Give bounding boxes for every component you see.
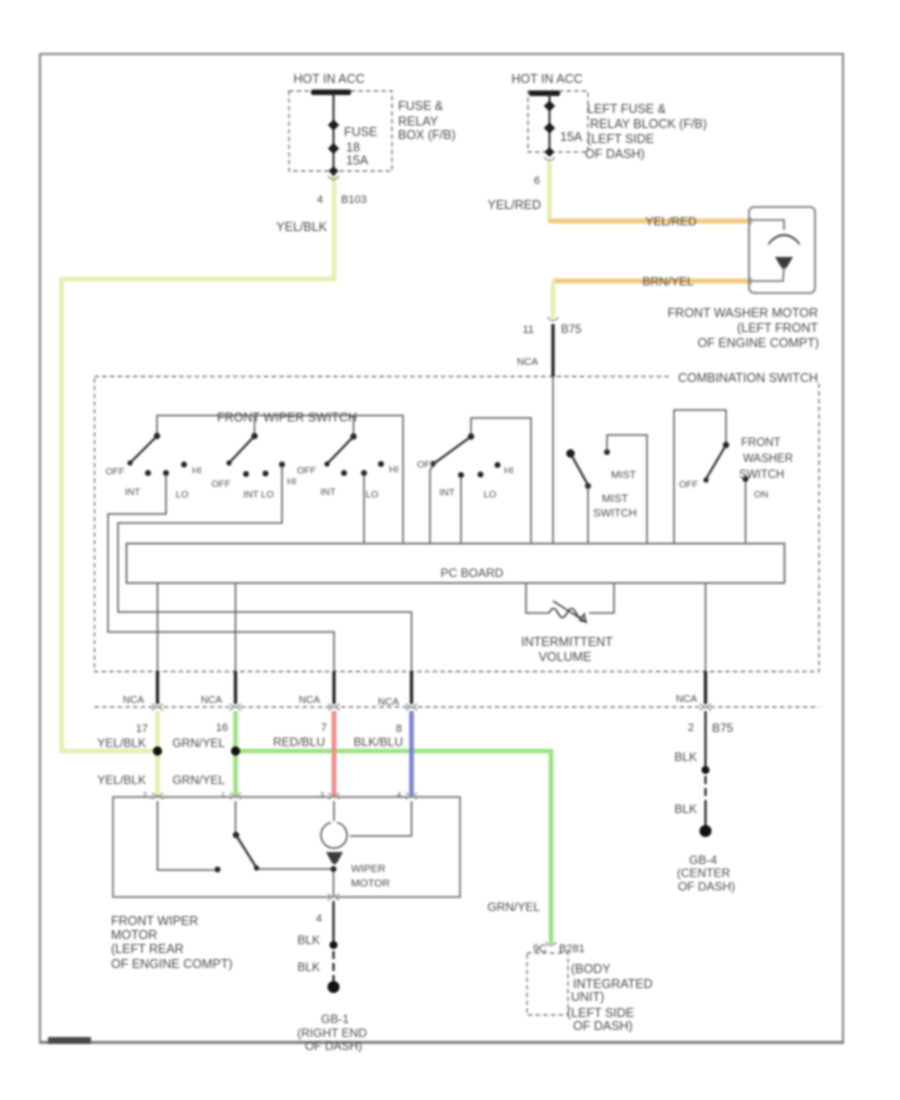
svg-text:4: 4 bbox=[317, 194, 323, 206]
svg-text:RELAY: RELAY bbox=[398, 115, 439, 129]
svg-text:HOT IN ACC: HOT IN ACC bbox=[293, 72, 364, 86]
pin 8 bbox=[396, 723, 402, 735]
svg-text:LO: LO bbox=[484, 490, 497, 501]
label HOT IN ACC (right) bbox=[511, 72, 582, 86]
svg-text:OFF: OFF bbox=[679, 480, 698, 491]
svg-text:YEL/RED: YEL/RED bbox=[488, 198, 542, 212]
svg-text:OFF: OFF bbox=[417, 460, 436, 471]
front wiper motor box bbox=[113, 797, 460, 897]
svg-text:INT: INT bbox=[125, 487, 141, 498]
svg-text:VOLUME: VOLUME bbox=[539, 650, 592, 664]
svg-text:8: 8 bbox=[396, 723, 402, 735]
svg-text:OF DASH): OF DASH) bbox=[585, 147, 645, 161]
svg-text:NCA: NCA bbox=[201, 695, 222, 706]
svg-text:COMBINATION SWITCH: COMBINATION SWITCH bbox=[678, 371, 818, 385]
wire exit2 gray inside box bbox=[235, 583, 237, 672]
washer motor connectors at box edge bbox=[748, 216, 752, 287]
svg-text:FRONT WIPER SWITCH: FRONT WIPER SWITCH bbox=[217, 411, 357, 425]
svg-text:NCA: NCA bbox=[299, 695, 320, 706]
svg-text:HI: HI bbox=[192, 466, 202, 477]
svg-text:11: 11 bbox=[523, 324, 534, 336]
label LEFT FUSE & RELAY BLOCK bbox=[585, 102, 707, 161]
svg-text:LO: LO bbox=[366, 490, 379, 501]
intermittent volume bbox=[521, 583, 614, 664]
wire exit5 black harness bbox=[704, 671, 707, 704]
svg-text:OFF: OFF bbox=[212, 479, 231, 490]
svg-text:GRN/YEL: GRN/YEL bbox=[172, 736, 225, 750]
pin 2 B75 bbox=[688, 721, 734, 735]
wire YEL/RED vertical bbox=[547, 162, 552, 221]
label NCA exit4 bbox=[378, 697, 399, 708]
svg-text:HI: HI bbox=[389, 465, 399, 476]
wire GRN/YEL horizontal to body integrated unit bbox=[236, 751, 552, 944]
svg-text:LEFT FUSE &: LEFT FUSE & bbox=[587, 102, 667, 116]
svg-text:BOX (F/B): BOX (F/B) bbox=[398, 128, 456, 142]
svg-text:OF DASH): OF DASH) bbox=[305, 1039, 362, 1053]
wire exit1 YEL/BLK colored bbox=[155, 711, 160, 796]
wiper switch wafer 2 bbox=[212, 416, 297, 501]
connector at wiper motor box bottom bbox=[316, 894, 339, 926]
svg-text:FRONT: FRONT bbox=[741, 437, 781, 449]
label YEL/RED (left of wire) bbox=[488, 198, 542, 212]
watermark blob bottom-left bbox=[48, 1037, 91, 1044]
front washer switch bbox=[674, 410, 768, 544]
wire YEL/BLK long run from fuse box to wiper circuit bbox=[62, 176, 335, 751]
wiper motor internal wires bbox=[158, 801, 412, 897]
svg-text:6: 6 bbox=[534, 175, 540, 187]
wire exit4 BLK/BLU colored bbox=[409, 711, 414, 796]
wire fuse 18 internal bbox=[333, 93, 335, 176]
svg-text:(RIGHT END: (RIGHT END bbox=[297, 1026, 367, 1040]
svg-text:SWITCH: SWITCH bbox=[739, 469, 784, 481]
label COMBINATION SWITCH bbox=[672, 371, 820, 385]
connector pin 4 at fuse box bottom bbox=[317, 166, 367, 206]
label FRONT WASHER SWITCH bbox=[739, 437, 793, 481]
svg-text:(CENTER: (CENTER bbox=[677, 866, 731, 880]
svg-text:INT: INT bbox=[320, 487, 336, 498]
svg-text:HI: HI bbox=[504, 466, 514, 477]
svg-text:4: 4 bbox=[397, 792, 401, 799]
wire wafer2 HI to BLK/BLU exit bbox=[118, 466, 412, 672]
splice dot bottom bbox=[330, 941, 338, 949]
svg-text:HI: HI bbox=[287, 477, 297, 488]
wire wafer4 INT to PC board bbox=[460, 477, 462, 544]
pin 17 bbox=[136, 723, 148, 735]
label NCA exit2 bbox=[201, 695, 222, 706]
svg-text:B75: B75 bbox=[561, 324, 581, 336]
svg-text:RED/BLU: RED/BLU bbox=[273, 735, 325, 749]
svg-text:YEL/BLK: YEL/BLK bbox=[97, 736, 146, 750]
fuse 15A bbox=[544, 100, 583, 144]
svg-text:FRONT WASHER MOTOR: FRONT WASHER MOTOR bbox=[668, 306, 818, 320]
inline connector marks bottom bbox=[0, 0, 1, 1]
svg-text:RELAY BLOCK (F/B): RELAY BLOCK (F/B) bbox=[590, 117, 707, 131]
ground GB-4 bbox=[677, 825, 735, 894]
svg-text:GB-4: GB-4 bbox=[689, 853, 717, 867]
svg-text:BLK/BLU: BLK/BLU bbox=[354, 735, 403, 749]
inline connector marks right bbox=[0, 0, 1, 1]
svg-text:(BODY: (BODY bbox=[571, 962, 611, 976]
wire wafer3 LO to PC board bbox=[363, 475, 365, 544]
svg-text:BLK: BLK bbox=[674, 802, 697, 816]
fuse and relay box (F/B) dashed box bbox=[289, 91, 392, 171]
wire BLK to ground GB-1 bbox=[332, 901, 334, 983]
svg-text:(LEFT REAR: (LEFT REAR bbox=[111, 942, 184, 956]
svg-text:BLK: BLK bbox=[674, 750, 697, 764]
connector row dashed line B75 bbox=[95, 706, 820, 708]
label BLK (right, lower) bbox=[674, 802, 697, 816]
wire black to combination switch bbox=[551, 324, 554, 377]
svg-text:BLK: BLK bbox=[297, 960, 320, 974]
label GRN/YEL row1 bbox=[172, 736, 225, 750]
wire exit1 black harness bbox=[156, 671, 159, 704]
svg-text:18: 18 bbox=[346, 141, 360, 155]
bus bar (left fuse box) bbox=[311, 90, 351, 96]
svg-text:2: 2 bbox=[143, 792, 147, 799]
svg-text:OFF: OFF bbox=[106, 467, 125, 478]
connector 9C B281 bbox=[533, 942, 585, 955]
svg-text:NCA: NCA bbox=[676, 694, 697, 705]
connector symbol exit3 bbox=[329, 704, 340, 711]
svg-text:YEL/BLK: YEL/BLK bbox=[97, 773, 146, 787]
washer motor box bbox=[749, 207, 815, 293]
label FRONT WASHER MOTOR bbox=[668, 306, 819, 350]
wire exit2 GRN/YEL colored bbox=[233, 711, 238, 796]
label GRN/YEL near body integrated unit bbox=[487, 900, 540, 914]
svg-text:FUSE &: FUSE & bbox=[398, 99, 444, 113]
svg-text:INTEGRATED: INTEGRATED bbox=[573, 977, 653, 991]
svg-text:UNIT): UNIT) bbox=[571, 990, 604, 1004]
label GRN/YEL row2 bbox=[172, 773, 225, 787]
wire wafer4 OFF to PC board bbox=[430, 466, 433, 544]
wiper switch wafer 3 bbox=[297, 416, 399, 501]
wire washer switch feed: yellow stub bbox=[551, 281, 556, 318]
wire wafer1 LO to RED/BLU exit bbox=[108, 475, 334, 672]
label YEL/BLK row1 bbox=[97, 736, 146, 750]
svg-text:MIST: MIST bbox=[602, 493, 629, 505]
mist switch bbox=[566, 435, 647, 544]
label FRONT WIPER MOTOR bbox=[111, 914, 233, 971]
svg-text:17: 17 bbox=[136, 723, 148, 735]
svg-text:INTERMITTENT: INTERMITTENT bbox=[521, 635, 613, 649]
junction dot exit2 bbox=[231, 746, 240, 755]
svg-text:1: 1 bbox=[221, 792, 225, 799]
wire exit2 black harness bbox=[234, 671, 237, 704]
svg-text:OFF: OFF bbox=[297, 466, 316, 477]
label FUSE & RELAY BOX (F/B) bbox=[398, 99, 456, 142]
svg-text:NCA: NCA bbox=[517, 357, 538, 368]
pin 7 bbox=[321, 722, 327, 734]
label BODY INTEGRATED UNIT bbox=[567, 962, 653, 1033]
svg-text:GB-1: GB-1 bbox=[321, 1012, 349, 1026]
wiper motor symbol bbox=[321, 823, 390, 890]
label NCA exit5 bbox=[676, 694, 697, 705]
label NCA (washer wire) bbox=[517, 357, 538, 368]
wire BRN/YEL horizontal from washer motor bbox=[553, 275, 750, 289]
svg-text:BRN/YEL: BRN/YEL bbox=[642, 275, 694, 289]
svg-text:WIPER: WIPER bbox=[351, 863, 386, 875]
svg-text:(LEFT SIDE: (LEFT SIDE bbox=[587, 132, 654, 146]
svg-text:(LEFT FRONT: (LEFT FRONT bbox=[737, 321, 818, 335]
fuse F18 15A bbox=[328, 119, 378, 167]
svg-text:15A: 15A bbox=[560, 130, 583, 144]
svg-text:YEL/BLK: YEL/BLK bbox=[276, 220, 327, 234]
svg-text:B103: B103 bbox=[341, 194, 367, 206]
bus bar (right fuse box) bbox=[529, 91, 560, 97]
svg-text:YEL/RED: YEL/RED bbox=[645, 215, 697, 229]
label NCA exit1 bbox=[123, 695, 144, 706]
wiper switch bus bbox=[157, 416, 403, 545]
combination switch dashed box bbox=[95, 377, 820, 672]
wire exit3 RED/BLU colored bbox=[332, 711, 337, 796]
wire fuse 15A internal bbox=[549, 93, 551, 156]
wiper switch wafer 1 bbox=[106, 433, 202, 501]
ground GB-1 bbox=[297, 981, 367, 1053]
svg-text:16: 16 bbox=[216, 722, 228, 734]
svg-text:3: 3 bbox=[320, 792, 324, 799]
svg-text:WASHER: WASHER bbox=[743, 453, 793, 465]
svg-text:PC BOARD: PC BOARD bbox=[441, 566, 504, 580]
svg-text:15A: 15A bbox=[346, 154, 369, 168]
svg-text:(LEFT SIDE: (LEFT SIDE bbox=[567, 1006, 634, 1020]
svg-text:HOT IN ACC: HOT IN ACC bbox=[511, 72, 582, 86]
svg-text:OF DASH): OF DASH) bbox=[573, 1019, 633, 1033]
svg-text:7: 7 bbox=[321, 722, 327, 734]
connector 11 B75 bbox=[523, 317, 582, 336]
wire BLK to ground GB-4 bbox=[704, 711, 706, 827]
wire exit1 gray inside box bbox=[157, 583, 159, 672]
label YEL/BLK row2 bbox=[97, 773, 146, 787]
wiper motor park switch bbox=[215, 832, 260, 873]
svg-text:NCA: NCA bbox=[123, 695, 144, 706]
wire washer feed inside combination switch bbox=[552, 377, 554, 544]
label BLK (bottom, upper) bbox=[297, 933, 320, 947]
svg-text:GRN/YEL: GRN/YEL bbox=[172, 773, 225, 787]
washer motor symbol bbox=[750, 220, 800, 281]
label YEL/BLK (top left wire) bbox=[276, 220, 327, 234]
svg-text:B75: B75 bbox=[712, 721, 734, 735]
svg-text:LO: LO bbox=[176, 490, 189, 501]
label HOT IN ACC (left) bbox=[293, 72, 364, 86]
junction dot exit1 bbox=[153, 746, 162, 755]
svg-text:OF ENGINE COMPT): OF ENGINE COMPT) bbox=[111, 957, 233, 971]
svg-text:MOTOR: MOTOR bbox=[111, 928, 157, 942]
svg-text:OF ENGINE COMPT): OF ENGINE COMPT) bbox=[697, 336, 819, 350]
connector symbol exit2 bbox=[230, 704, 241, 711]
PC board bbox=[127, 544, 785, 584]
svg-text:FRONT WIPER: FRONT WIPER bbox=[111, 914, 198, 928]
label FRONT WIPER SWITCH bbox=[217, 411, 357, 425]
svg-text:MOTOR: MOTOR bbox=[351, 878, 390, 890]
connector symbol exit4 bbox=[406, 704, 417, 711]
splice dot right bbox=[702, 766, 710, 774]
pin 16 bbox=[216, 722, 228, 734]
svg-text:4: 4 bbox=[316, 913, 322, 925]
wire exit4 black harness bbox=[410, 671, 413, 704]
wire exit5 gray inside box (to GB-4) bbox=[705, 583, 707, 672]
svg-text:GRN/YEL: GRN/YEL bbox=[487, 900, 540, 914]
svg-text:MIST: MIST bbox=[611, 469, 637, 481]
wire exit3 black harness bbox=[332, 671, 335, 704]
connector symbol exit1 bbox=[152, 704, 163, 711]
label BLK/BLU bbox=[354, 735, 403, 749]
svg-text:2: 2 bbox=[688, 722, 694, 734]
svg-text:INT LO: INT LO bbox=[243, 490, 273, 501]
body integrated unit dashed box bbox=[527, 953, 568, 1015]
svg-text:INT: INT bbox=[439, 488, 455, 499]
svg-text:ON: ON bbox=[754, 490, 768, 501]
connector pin 6 at right fuse box bottom bbox=[534, 147, 555, 187]
svg-text:BLK: BLK bbox=[297, 933, 320, 947]
svg-text:OF DASH): OF DASH) bbox=[678, 880, 735, 894]
connector symbols at wiper motor box top bbox=[143, 792, 417, 800]
connector symbol exit5 bbox=[700, 704, 711, 711]
wiper switch wafer 4 bbox=[417, 418, 531, 544]
left fuse block (HOT IN ACC right) dashed box bbox=[528, 91, 588, 152]
svg-text:SWITCH: SWITCH bbox=[593, 508, 636, 520]
wire YEL/RED horizontal to washer motor bbox=[548, 215, 750, 229]
svg-text:FUSE: FUSE bbox=[344, 125, 377, 139]
svg-text:NCA: NCA bbox=[378, 697, 399, 708]
label BLK (right, upper) bbox=[674, 750, 697, 764]
label NCA exit3 bbox=[299, 695, 320, 706]
label BLK (bottom, lower) bbox=[297, 960, 320, 974]
label RED/BLU bbox=[273, 735, 325, 749]
svg-text:B281: B281 bbox=[559, 943, 585, 955]
